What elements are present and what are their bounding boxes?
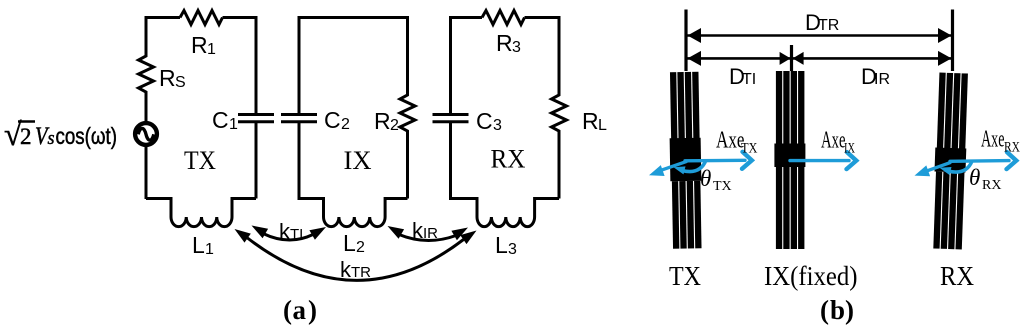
svg-text:TI: TI [290, 226, 303, 243]
svg-text:(: ( [283, 295, 292, 325]
coupling arrow kIR [399, 235, 456, 241]
inductor L1 [171, 199, 256, 227]
rotation arc RX [948, 161, 972, 172]
svg-text:s: s [48, 128, 55, 149]
capacitor C1 plates [238, 115, 274, 122]
svg-text:R: R [496, 30, 513, 56]
svg-text:L: L [598, 117, 607, 134]
resistor RS [139, 52, 154, 122]
svg-text:TR: TR [818, 17, 839, 34]
svg-text:3: 3 [508, 241, 517, 258]
axis arrow RX horizontal [950, 152, 1016, 169]
svg-text:S: S [175, 74, 186, 91]
svg-text:3: 3 [512, 39, 521, 56]
axis arrow IX [790, 152, 856, 169]
wire TX loop top-left segment [146, 18, 180, 53]
svg-text:θ: θ [969, 165, 980, 190]
dimension line DTI DIR [687, 57, 952, 60]
svg-text:Axe: Axe [981, 127, 1005, 153]
svg-text:L: L [192, 232, 205, 258]
wire TX bottom-left [146, 199, 171, 218]
part b: boundary tick TX [684, 10, 687, 72]
svg-text:TX: TX [713, 179, 732, 194]
rotation arc TX [682, 160, 706, 171]
coupling arrow kTR [248, 238, 464, 280]
svg-text:RX: RX [940, 261, 974, 291]
svg-text:2: 2 [390, 117, 399, 134]
svg-text:b: b [830, 295, 845, 325]
coupling arrow kTI [263, 234, 313, 241]
svg-text:RX: RX [982, 178, 1001, 193]
svg-text:TR: TR [351, 264, 371, 281]
svg-text:): ) [308, 295, 317, 325]
svg-text:RX: RX [491, 145, 526, 174]
svg-text:IR: IR [874, 71, 890, 88]
svg-text:R: R [191, 32, 208, 58]
wire TX right lower [255, 122, 258, 199]
svg-text:TX: TX [741, 141, 758, 157]
inductor L2 [324, 199, 408, 227]
capacitor C2 plates [281, 115, 317, 122]
coil RX [932, 73, 969, 250]
svg-text:): ) [845, 295, 854, 325]
label source voltage [4, 116, 117, 152]
axis arrow RX tilted [923, 162, 951, 172]
svg-text:TX: TX [184, 146, 216, 175]
dimension line DTR [687, 34, 952, 37]
wire RX loop top-left [451, 18, 483, 115]
svg-text:2: 2 [341, 116, 350, 133]
svg-text:(: ( [820, 295, 829, 325]
svg-text:IX(fixed): IX(fixed) [764, 261, 858, 291]
svg-text:C: C [324, 107, 341, 133]
wire below source [145, 146, 148, 200]
svg-text:3: 3 [493, 117, 502, 134]
svg-text:L: L [495, 232, 508, 258]
wire IX left lower [299, 122, 324, 217]
svg-text:IX: IX [844, 141, 855, 157]
svg-text:1: 1 [207, 41, 216, 58]
svg-text:θ: θ [700, 166, 711, 191]
svg-text:R: R [582, 108, 599, 134]
coil IX [774, 71, 805, 249]
inductor L3 [477, 199, 559, 227]
svg-text:a: a [293, 295, 307, 325]
resistor R2 [400, 92, 415, 199]
boundary tick IX [790, 45, 793, 71]
svg-text:R: R [374, 108, 391, 134]
svg-text:C: C [212, 107, 229, 133]
capacitor C3 plates [433, 115, 469, 122]
svg-text:2: 2 [356, 239, 365, 256]
svg-text:C: C [476, 108, 493, 134]
svg-text:1: 1 [229, 116, 238, 133]
resistor R3 [482, 11, 525, 25]
resistor R1 [180, 11, 223, 25]
wire IX loop top [299, 18, 408, 115]
svg-text:cos(ωt): cos(ωt) [56, 123, 118, 149]
svg-text:RX: RX [1004, 140, 1020, 156]
svg-text:L: L [343, 230, 356, 256]
wire RX left lower [451, 122, 478, 217]
svg-text:1: 1 [205, 241, 214, 258]
coil TX [668, 72, 702, 249]
boundary tick RX [951, 10, 954, 72]
svg-text:Axe: Axe [821, 128, 846, 154]
svg-text:IR: IR [423, 225, 438, 242]
wire RX top-right [525, 18, 560, 93]
ac source V [135, 123, 157, 145]
wire TX loop top-right segment [223, 18, 257, 115]
svg-text:R: R [159, 65, 176, 91]
axis arrow TX horizontal [685, 152, 752, 169]
axis arrow TX tilted [658, 161, 687, 171]
svg-text:TI: TI [742, 71, 756, 88]
resistor RL [552, 92, 567, 199]
svg-text:IX: IX [344, 146, 372, 175]
svg-text:TX: TX [669, 261, 701, 291]
svg-text:2: 2 [20, 124, 32, 149]
